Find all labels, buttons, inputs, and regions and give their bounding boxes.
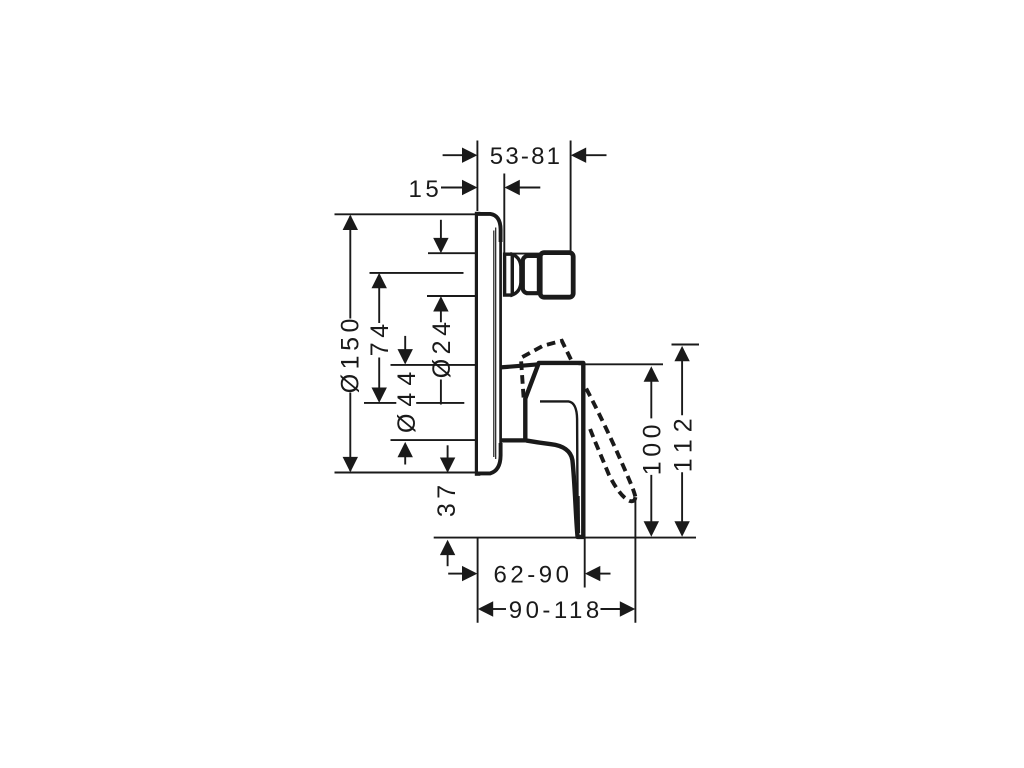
svg-text:15: 15 [409, 176, 443, 203]
valve sleeve between plate and handle [501, 364, 539, 440]
svg-text:62-90: 62-90 [494, 562, 573, 589]
dimension 37 [433, 445, 461, 566]
dimension 15 [409, 176, 541, 203]
extension line stub axis (74 top) [370, 272, 464, 274]
dimension 100 [638, 366, 666, 536]
dimension 90-118 [478, 597, 635, 624]
svg-text:Ø24: Ø24 [428, 318, 456, 379]
escutcheon plate (side view) [475, 212, 501, 476]
vertical extension line handle tip (62-90) [584, 538, 586, 588]
extension line sleeve bottom (Ø44) [391, 439, 476, 441]
extension line handle bottom reference [434, 537, 696, 539]
svg-text:90-118: 90-118 [509, 597, 603, 624]
extension line plate bottom (Ø150/37) [335, 472, 477, 474]
svg-text:112: 112 [669, 411, 697, 472]
outlet stub part B (middle cylinder) [523, 256, 542, 293]
svg-text:74: 74 [366, 319, 394, 356]
dimension 112 [669, 346, 697, 537]
extension line plate top (Ø150) [335, 213, 477, 215]
svg-text:100: 100 [638, 420, 666, 475]
svg-text:37: 37 [433, 480, 461, 517]
dimension Ø24 [428, 220, 456, 405]
dashed handle (alternate position) [521, 341, 636, 501]
svg-text:Ø150: Ø150 [336, 314, 364, 393]
svg-text:Ø44: Ø44 [393, 365, 421, 433]
dimension Ø150 [336, 215, 364, 473]
dimension 74 [366, 273, 394, 403]
svg-text:53-81: 53-81 [490, 143, 562, 170]
lever handle (solid position) [525, 363, 583, 537]
dimension 62-90 [448, 562, 610, 589]
vertical extension line plate face bottom [477, 538, 479, 623]
dimension Ø44 [393, 336, 421, 465]
extension line sleeve top (Ø44) [391, 364, 476, 366]
extension line stub top right (to 53-81) [504, 253, 571, 255]
vertical extension line stub end (53-81) [570, 141, 572, 254]
outlet stub part C (end cap) [540, 253, 573, 298]
vertical extension line wall face (15) [503, 174, 505, 255]
extension line stub bottom (Ø24) [427, 295, 476, 297]
extension line handle top (100) [579, 363, 664, 365]
vertical extension line plate face top [476, 141, 478, 212]
extension line stub top left (Ø24) [428, 252, 476, 254]
dimension 53-81 [443, 143, 607, 170]
vertical extension line dashed tip (90-118) [634, 498, 636, 623]
outlet stub part A (dome against plate) [505, 254, 521, 295]
extension line dashed-handle top (112) [672, 344, 700, 346]
extension line valve axis (74 bottom) [364, 402, 464, 404]
